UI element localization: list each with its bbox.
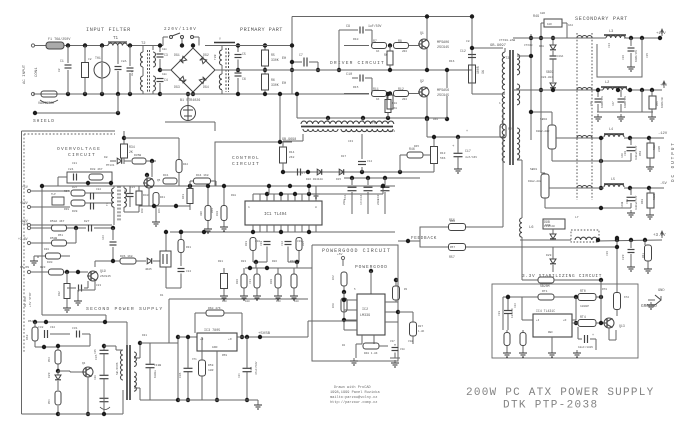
svg-text:D31: D31 <box>142 334 147 337</box>
svg-text:F2: F2 <box>500 126 504 129</box>
svg-text:R37: R37 <box>64 190 69 193</box>
svg-text:R41: R41 <box>158 208 161 213</box>
svg-text:SB20M: SB20M <box>540 284 550 288</box>
svg-text:R39: R39 <box>72 210 78 213</box>
svg-text:C23: C23 <box>102 235 105 240</box>
svg-text:R43: R43 <box>182 194 185 199</box>
svg-text:IC1 TL494: IC1 TL494 <box>264 213 287 217</box>
svg-text:R23: R23 <box>245 241 248 246</box>
svg-text:C38: C38 <box>400 348 405 351</box>
svg-text:C37: C37 <box>390 340 395 343</box>
svg-text:C21: C21 <box>249 279 252 284</box>
svg-text:D8: D8 <box>104 156 108 159</box>
svg-text:IC4 TL431C: IC4 TL431C <box>536 309 555 313</box>
svg-text:+I: +I <box>536 319 540 322</box>
svg-text:TH1: TH1 <box>95 56 101 60</box>
svg-text:R28: R28 <box>270 279 273 284</box>
svg-text:R4: R4 <box>342 344 346 347</box>
svg-text:C6: C6 <box>228 76 231 80</box>
svg-text:R51: R51 <box>58 234 63 237</box>
svg-text:R62: R62 <box>26 334 29 340</box>
svg-text:R31: R31 <box>186 246 191 249</box>
svg-text:R61: R61 <box>642 253 645 258</box>
svg-text:220u: 220u <box>343 198 346 205</box>
svg-text:CIRCUIT: CIRCUIT <box>232 161 260 167</box>
svg-text:D27: D27 <box>84 220 90 223</box>
svg-text:Drawn with ProCAD: Drawn with ProCAD <box>334 385 371 390</box>
svg-text:R12: R12 <box>398 87 404 91</box>
svg-text:R57: R57 <box>449 255 455 259</box>
svg-text:D29: D29 <box>546 254 552 257</box>
svg-text:C8: C8 <box>466 40 470 43</box>
svg-text:SB-9696: SB-9696 <box>116 362 119 375</box>
svg-text:10R: 10R <box>540 12 545 15</box>
svg-text:R60 47K: R60 47K <box>208 307 221 310</box>
svg-text:http://parzour.comp.cz: http://parzour.comp.cz <box>330 400 377 405</box>
svg-text:XT1: XT1 <box>192 358 197 361</box>
svg-text:100R: 100R <box>476 66 480 74</box>
svg-text:LM339: LM339 <box>360 314 370 318</box>
svg-text:D15: D15 <box>336 178 341 181</box>
svg-text:B1 STR4026: B1 STR4026 <box>180 99 200 103</box>
svg-text:R23: R23 <box>241 260 246 263</box>
svg-text:39K: 39K <box>200 211 203 216</box>
svg-text:EH: EH <box>282 82 286 86</box>
svg-text:C21: C21 <box>72 162 77 165</box>
svg-text:C6: C6 <box>242 77 246 81</box>
svg-text:+: + <box>466 130 468 134</box>
svg-text:D17: D17 <box>341 155 346 158</box>
svg-text:Q1: Q1 <box>420 31 424 35</box>
svg-text:C31: C31 <box>130 186 135 189</box>
svg-text:-5V: -5V <box>660 182 668 186</box>
svg-text:Q2: Q2 <box>420 79 424 83</box>
svg-text:DRIVER CIRCUIT: DRIVER CIRCUIT <box>330 60 385 66</box>
svg-text:R5: R5 <box>271 53 275 57</box>
svg-text:T2B: T2B <box>214 54 217 60</box>
svg-text:4u7/16V: 4u7/16V <box>465 155 477 159</box>
svg-text:C39: C39 <box>94 375 97 380</box>
svg-text:DC OUTPUT: DC OUTPUT <box>671 141 676 182</box>
svg-text:1000/16V: 1000/16V <box>635 49 638 62</box>
svg-text:L6: L6 <box>529 226 534 230</box>
svg-text:CTX30: CTX30 <box>524 44 533 47</box>
svg-text:PRIMARY PART: PRIMARY PART <box>240 27 283 33</box>
svg-text:2R2: 2R2 <box>402 98 407 101</box>
svg-text:L7: L7 <box>575 216 579 219</box>
svg-text:C12: C12 <box>281 241 284 246</box>
svg-text:R16: R16 <box>449 60 455 63</box>
svg-text:C36: C36 <box>179 372 182 378</box>
svg-text:R45: R45 <box>414 145 419 148</box>
svg-text:T4: T4 <box>106 202 109 206</box>
svg-text:SBD3: SBD3 <box>546 70 554 74</box>
svg-text:D29: D29 <box>48 372 51 378</box>
svg-text:C20: C20 <box>260 241 263 246</box>
svg-text:R56: R56 <box>450 220 455 223</box>
svg-text:2K: 2K <box>129 150 133 154</box>
svg-text:D16 1N4148: D16 1N4148 <box>306 178 323 181</box>
svg-text:D30: D30 <box>47 261 53 264</box>
svg-text:100: 100 <box>222 300 227 303</box>
svg-text:C2A: C2A <box>121 60 127 63</box>
svg-text:10n: 10n <box>162 48 167 51</box>
svg-text:D13: D13 <box>390 130 395 133</box>
svg-text:100: 100 <box>294 300 299 303</box>
svg-text:SHIELD: SHIELD <box>33 118 55 124</box>
svg-text:DG1: DG1 <box>174 53 180 57</box>
svg-text:L3: L3 <box>609 30 613 34</box>
svg-text:C31: C31 <box>626 199 629 204</box>
svg-text:RT0: RT0 <box>580 289 586 293</box>
svg-text:8V RUL: 8V RUL <box>24 296 27 307</box>
svg-text:C12: C12 <box>460 49 466 53</box>
svg-text:C35: C35 <box>94 349 97 354</box>
svg-text:1000/16V: 1000/16V <box>601 95 604 108</box>
svg-text:R21: R21 <box>218 260 223 263</box>
svg-text:C24: C24 <box>608 43 611 48</box>
svg-text:C24: C24 <box>186 270 191 273</box>
svg-text:C5: C5 <box>242 52 246 56</box>
svg-text:CON1: CON1 <box>35 67 39 77</box>
svg-text:DG3: DG3 <box>174 85 180 89</box>
svg-text:R27: R27 <box>418 325 423 328</box>
svg-text:Y: Y <box>219 37 221 41</box>
svg-text:R70: R70 <box>602 288 607 291</box>
svg-text:3.3V STABILIZING CIRCUIT: 3.3V STABILIZING CIRCUIT <box>522 274 602 279</box>
svg-text:+O: +O <box>228 338 232 341</box>
svg-text:DG2: DG2 <box>203 53 209 57</box>
svg-text:RT4: RT4 <box>580 315 586 319</box>
svg-text:R57: R57 <box>450 246 455 249</box>
svg-text:R34: R34 <box>129 145 135 149</box>
svg-text:C24: C24 <box>68 168 74 171</box>
svg-text:200W PC ATX POWER SUPPLY: 200W PC ATX POWER SUPPLY <box>466 387 654 399</box>
svg-text:R10: R10 <box>353 38 359 41</box>
svg-text:R48: R48 <box>332 303 335 308</box>
svg-text:C29: C29 <box>622 254 625 260</box>
svg-text:R59: R59 <box>222 354 227 357</box>
svg-text:4N25: 4N25 <box>145 268 152 271</box>
svg-text:R62A: R62A <box>653 143 656 150</box>
svg-text:C44: C44 <box>360 200 363 205</box>
svg-text:C31: C31 <box>124 189 127 194</box>
svg-text:+3.3V: +3.3V <box>653 234 666 238</box>
svg-text:L4: L4 <box>609 128 613 132</box>
svg-text:C26: C26 <box>622 55 625 60</box>
svg-text:330K: 330K <box>271 58 279 62</box>
svg-text:R50B: R50B <box>50 237 57 240</box>
svg-text:1000uF: 1000uF <box>511 308 514 318</box>
svg-text:1uF/50V: 1uF/50V <box>368 24 381 28</box>
svg-text:R10: R10 <box>392 102 397 105</box>
svg-text:R3: R3 <box>404 288 408 291</box>
svg-text:F1 T6A/250V: F1 T6A/250V <box>48 37 71 42</box>
svg-text:R44 1K8: R44 1K8 <box>196 174 209 177</box>
svg-text:100R/2W: 100R/2W <box>661 97 664 108</box>
svg-text:R42: R42 <box>332 275 335 280</box>
svg-text:R11: R11 <box>373 87 379 91</box>
svg-text:C19: C19 <box>297 240 302 243</box>
svg-text:100: 100 <box>276 300 281 303</box>
svg-text:C26A: C26A <box>557 55 564 58</box>
svg-text:220u: 220u <box>377 198 380 205</box>
svg-text:C2: C2 <box>88 58 92 61</box>
svg-text:C3: C3 <box>164 53 168 57</box>
svg-text:+5V STOP: +5V STOP <box>29 292 32 307</box>
svg-text:+5V: +5V <box>22 185 28 189</box>
svg-text:10R: 10R <box>547 23 552 26</box>
svg-text:C18: C18 <box>255 240 260 243</box>
svg-text:220V/110V: 220V/110V <box>164 27 197 32</box>
svg-text:C29: C29 <box>606 251 609 256</box>
svg-text:C9: C9 <box>346 25 350 29</box>
svg-text:C32: C32 <box>38 326 44 329</box>
svg-text:1000uF/16V: 1000uF/16V <box>635 145 638 160</box>
svg-text:R14: R14 <box>289 151 295 154</box>
svg-text:D1E2-A02: D1E2-A02 <box>528 180 542 183</box>
svg-text:C17: C17 <box>465 149 471 153</box>
svg-text:SECOND POWER SUPPLY: SECOND POWER SUPPLY <box>86 306 164 312</box>
svg-text:GB-9697: GB-9697 <box>490 44 506 48</box>
svg-text:POWERGOOD CIRCUIT: POWERGOOD CIRCUIT <box>322 248 391 254</box>
svg-text:C10: C10 <box>346 73 352 77</box>
svg-text:R54: R54 <box>48 399 51 404</box>
svg-text:+5V: +5V <box>22 222 28 226</box>
svg-text:mailto:parzou@volny.cz: mailto:parzou@volny.cz <box>330 395 377 400</box>
svg-text:R35B: R35B <box>134 154 141 157</box>
svg-text:F2: F2 <box>508 127 512 131</box>
svg-text:AC INPUT: AC INPUT <box>23 64 27 84</box>
svg-text:C1: C1 <box>60 59 64 63</box>
svg-text:X2: X2 <box>58 68 61 72</box>
svg-text:REF: REF <box>548 331 553 334</box>
svg-text:C25: C25 <box>646 53 649 58</box>
svg-text:1000uF/16V: 1000uF/16V <box>635 195 638 210</box>
svg-text:C4: C4 <box>164 78 168 82</box>
svg-text:R26: R26 <box>272 260 277 263</box>
svg-text:R26: R26 <box>236 279 239 284</box>
svg-text:C33: C33 <box>514 303 517 308</box>
svg-text:C28: C28 <box>624 151 627 156</box>
svg-text:R40 1.8K: R40 1.8K <box>364 352 378 355</box>
svg-text:+12V: +12V <box>656 32 666 36</box>
svg-text:R19: R19 <box>211 208 214 213</box>
svg-text:+5VSB: +5VSB <box>258 332 271 336</box>
svg-text:SECONDARY PART: SECONDARY PART <box>575 16 628 22</box>
svg-text:R56: R56 <box>656 101 659 106</box>
svg-text:R50A 4K7: R50A 4K7 <box>50 220 65 223</box>
svg-text:GND: GND <box>212 346 218 349</box>
svg-text:1000u: 1000u <box>154 370 157 378</box>
svg-text:220R: 220R <box>658 145 661 152</box>
svg-text:C35: C35 <box>95 354 98 360</box>
svg-text:T1: T1 <box>113 37 119 41</box>
svg-text:10uF/100V: 10uF/100V <box>578 345 593 349</box>
svg-text:1K: 1K <box>376 50 380 53</box>
svg-text:Q4: Q4 <box>82 362 86 365</box>
svg-text:-12V: -12V <box>658 132 668 136</box>
svg-text:R37: R37 <box>72 186 78 189</box>
svg-text:+5V: +5V <box>337 253 343 256</box>
svg-text:C14: C14 <box>367 160 372 163</box>
svg-text:D1: D1 <box>160 294 164 297</box>
svg-text:2SC945: 2SC945 <box>437 46 449 50</box>
svg-text:R60: R60 <box>641 199 644 204</box>
svg-text:R42: R42 <box>183 163 188 166</box>
svg-text:C7: C7 <box>299 53 303 57</box>
svg-text:1K: 1K <box>376 98 380 101</box>
svg-text:R30: R30 <box>290 260 295 263</box>
svg-text:R41: R41 <box>163 174 169 177</box>
svg-text:8: 8 <box>315 206 317 209</box>
svg-text:C29B: C29B <box>621 201 624 208</box>
svg-text:Q19: Q19 <box>100 269 106 273</box>
svg-text:C30: C30 <box>590 101 593 106</box>
svg-text:R8: R8 <box>398 39 402 43</box>
svg-text:DG4: DG4 <box>203 85 209 89</box>
svg-text:MPSA56: MPSA56 <box>437 89 449 93</box>
svg-text:R18: R18 <box>216 211 219 216</box>
svg-text:R41: R41 <box>160 196 165 199</box>
svg-text:R13: R13 <box>440 152 446 155</box>
svg-text:R17: R17 <box>300 172 305 175</box>
svg-text:Q5: Q5 <box>157 179 161 182</box>
svg-text:2SC945: 2SC945 <box>100 275 111 278</box>
svg-text:R18: R18 <box>231 194 236 197</box>
svg-text:Q13: Q13 <box>619 324 625 328</box>
svg-text:MT131: MT131 <box>106 164 115 167</box>
svg-text:SBD1: SBD1 <box>530 168 537 171</box>
svg-text:330K: 330K <box>271 83 279 87</box>
svg-text:R39: R39 <box>64 208 69 211</box>
svg-text:D30: D30 <box>44 248 49 251</box>
svg-text:1: 1 <box>248 206 250 209</box>
svg-text:R6: R6 <box>271 78 275 82</box>
svg-text:D28: D28 <box>539 45 544 48</box>
svg-text:RT1: RT1 <box>542 290 548 293</box>
svg-text:MPSA06: MPSA06 <box>437 41 449 45</box>
svg-text:C43: C43 <box>348 140 353 143</box>
svg-text:SBD2: SBD2 <box>540 118 547 121</box>
svg-text:R49: R49 <box>533 15 539 19</box>
svg-text:T2: T2 <box>141 42 146 46</box>
svg-text:C27: C27 <box>612 101 615 106</box>
svg-text:1000/16V: 1000/16V <box>624 95 627 108</box>
svg-text:C23: C23 <box>96 284 101 287</box>
svg-text:R7: R7 <box>373 39 377 43</box>
svg-text:INPUT FILTER: INPUT FILTER <box>86 27 131 33</box>
svg-text:R52: R52 <box>28 320 33 323</box>
svg-text:R58: R58 <box>639 151 642 156</box>
svg-text:2R2: 2R2 <box>402 50 407 53</box>
svg-text:R40: R40 <box>141 208 144 213</box>
svg-text:1K8: 1K8 <box>392 107 397 110</box>
svg-text:IC3 7805: IC3 7805 <box>204 329 220 333</box>
svg-text:CONTROL: CONTROL <box>232 155 260 161</box>
svg-text:1998,1999 Pavel Ruzicka: 1998,1999 Pavel Ruzicka <box>330 390 380 395</box>
svg-text:TLP: TLP <box>51 193 56 196</box>
svg-text:T5: T5 <box>372 122 376 125</box>
svg-text:R32: R32 <box>58 291 61 296</box>
svg-text:L2: L2 <box>605 81 609 85</box>
svg-text:GND: GND <box>658 289 664 293</box>
svg-text:L5: L5 <box>611 178 615 182</box>
svg-text:R48: R48 <box>433 118 438 121</box>
svg-text:1K2: 1K2 <box>568 24 573 27</box>
svg-text:100: 100 <box>245 300 250 303</box>
svg-text:R40: R40 <box>143 194 149 197</box>
svg-text:D2E2-A02: D2E2-A02 <box>536 130 550 133</box>
svg-text:R15: R15 <box>353 86 359 89</box>
svg-text:C44: C44 <box>360 194 363 200</box>
svg-text:FEEDBACK: FEEDBACK <box>411 236 437 241</box>
svg-text:R59: R59 <box>208 364 214 367</box>
svg-text:R33: R33 <box>40 266 46 269</box>
svg-text:EH: EH <box>282 57 286 61</box>
svg-text:47uF/50V: 47uF/50V <box>254 361 258 375</box>
svg-text:+3.3V: +3.3V <box>18 237 28 241</box>
svg-text:C31: C31 <box>72 327 78 330</box>
svg-text:C22: C22 <box>96 188 101 191</box>
svg-text:+: + <box>592 334 594 338</box>
svg-text:0u1: 0u1 <box>131 71 134 76</box>
svg-text:1W: 1W <box>481 70 485 74</box>
svg-text:R53: R53 <box>48 357 51 362</box>
svg-text:D83-004: D83-004 <box>541 76 553 79</box>
svg-text:R62B: R62B <box>653 193 656 200</box>
svg-text:2K2: 2K2 <box>289 156 295 159</box>
svg-text:R25: R25 <box>302 241 305 246</box>
svg-text:C19B: C19B <box>154 364 161 367</box>
svg-text:KTA: KTA <box>624 296 629 299</box>
svg-text:CTX30-2AB: CTX30-2AB <box>499 39 515 42</box>
svg-text:C33: C33 <box>498 311 501 316</box>
svg-text:10R: 10R <box>208 369 214 372</box>
svg-text:C32: C32 <box>50 326 55 329</box>
svg-text:C34: C34 <box>238 373 241 378</box>
svg-text:1.8K: 1.8K <box>418 330 425 333</box>
svg-text:CIRCUIT: CIRCUIT <box>68 152 96 158</box>
svg-text:C38: C38 <box>408 340 413 343</box>
svg-text:5K6: 5K6 <box>440 157 446 160</box>
svg-text:OVERVOLTAGE: OVERVOLTAGE <box>57 146 101 152</box>
svg-text:D9B: D9B <box>545 224 551 227</box>
svg-text:+O: +O <box>563 319 567 322</box>
svg-text:C5: C5 <box>228 52 231 56</box>
svg-text:IC2: IC2 <box>362 308 368 312</box>
svg-text:DTK PTP-2038: DTK PTP-2038 <box>503 400 598 412</box>
svg-text:R38 4K7: R38 4K7 <box>90 168 103 171</box>
svg-text:C34: C34 <box>250 366 253 372</box>
svg-text:10n: 10n <box>162 73 167 76</box>
svg-text:1000P: 1000P <box>580 305 589 308</box>
svg-text:R36 1K8: R36 1K8 <box>120 255 133 258</box>
